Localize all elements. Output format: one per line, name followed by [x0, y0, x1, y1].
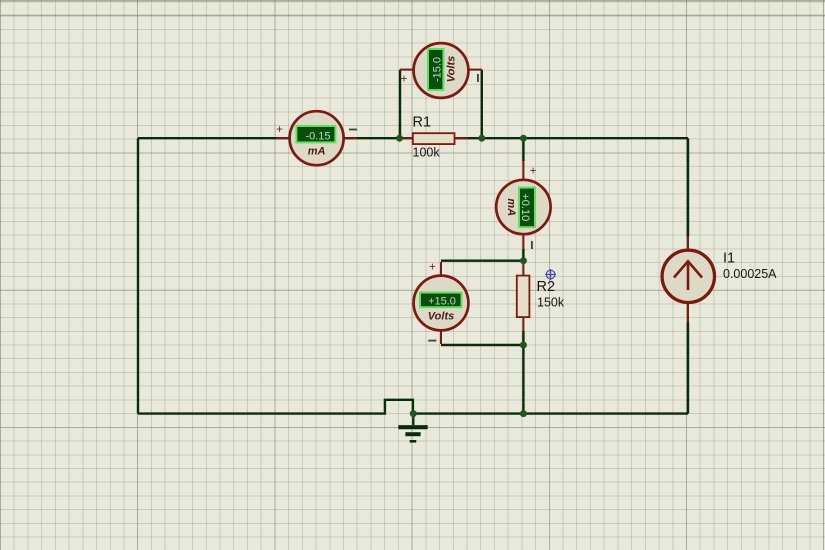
- svg-text:-0.15: -0.15: [305, 130, 330, 142]
- pin I1 bottom: [687, 302, 689, 323]
- wire voltmeter V1 left drop: [399, 70, 401, 139]
- wire ammeter A2 top stub: [522, 138, 524, 161]
- ammeter A2 body (+0.10): [496, 180, 550, 234]
- svg-text:+: +: [401, 73, 408, 85]
- ammeter AM1 body: [290, 111, 344, 165]
- wire ammeter A2 bottom stub: [522, 249, 524, 261]
- wire I1 bottom to bottom net: [687, 322, 689, 414]
- wire top horizontal net: [138, 137, 688, 139]
- wire left vertical: [137, 138, 139, 413]
- wire R2 bottom to bottom net: [522, 331, 524, 414]
- voltmeter V2 body (+15.0): [414, 276, 469, 331]
- resistor R2: [517, 276, 530, 318]
- pin R1 right: [455, 137, 469, 139]
- svg-text:mA: mA: [505, 198, 517, 216]
- current source I1: [662, 250, 714, 302]
- pin R1 left: [400, 137, 413, 139]
- node junction R2 bottom: [520, 342, 527, 349]
- svg-text:+: +: [276, 124, 283, 136]
- svg-text:100k: 100k: [413, 146, 441, 160]
- wire voltmeter V1 right drop: [481, 70, 483, 139]
- svg-text:R1: R1: [413, 115, 432, 131]
- svg-text:150k: 150k: [537, 295, 565, 309]
- wire right vertical to I1: [687, 138, 689, 237]
- pin A2 bottom: [522, 234, 524, 249]
- pin V2 top: [440, 262, 442, 276]
- svg-text:mA: mA: [308, 146, 326, 158]
- svg-text:I1: I1: [723, 251, 735, 267]
- pin R2 top: [522, 262, 524, 276]
- voltmeter V1 body (top, -15.0): [414, 43, 469, 98]
- wire voltmeter V2 bottom horizontal: [441, 344, 523, 346]
- R2 origin crosshair: [545, 269, 556, 280]
- svg-text:+: +: [429, 262, 436, 274]
- pin AM1 left: [276, 137, 290, 139]
- wire node below A2 horizontal: [441, 260, 523, 262]
- svg-text:-15.0: -15.0: [432, 57, 444, 82]
- pin AM1 right: [343, 137, 357, 139]
- svg-text:Volts: Volts: [428, 311, 455, 323]
- pin V1 left: [400, 69, 414, 71]
- ground symbol: [398, 414, 427, 442]
- AM1 minus mark: [349, 129, 357, 131]
- svg-text:R2: R2: [537, 279, 556, 295]
- A2 minus mark (rotated): [531, 241, 533, 249]
- pin I1 top: [687, 236, 689, 251]
- svg-text:+0.10: +0.10: [519, 193, 531, 221]
- pin V2 bottom: [440, 331, 442, 345]
- pin V1 right: [468, 69, 482, 71]
- pin A2 top: [522, 161, 524, 180]
- svg-text:+15.0: +15.0: [428, 295, 456, 307]
- node junction A2 bottom / R2 top: [520, 257, 527, 264]
- node junction bottom R2 column: [520, 410, 527, 417]
- V2 minus mark: [428, 340, 436, 342]
- svg-text:0.00025A: 0.00025A: [723, 267, 777, 281]
- node junction R1 left: [396, 135, 403, 142]
- node junction A2 top: [520, 135, 527, 142]
- resistor R1: [413, 133, 455, 144]
- svg-text:Volts: Volts: [446, 56, 458, 83]
- wire bottom horizontal with hop: [138, 400, 688, 414]
- node junction R1 right: [478, 135, 485, 142]
- svg-text:+: +: [530, 166, 537, 178]
- V1 minus mark (rotated): [477, 74, 479, 82]
- node junction ground: [410, 410, 417, 417]
- pin R2 bottom: [522, 317, 524, 331]
